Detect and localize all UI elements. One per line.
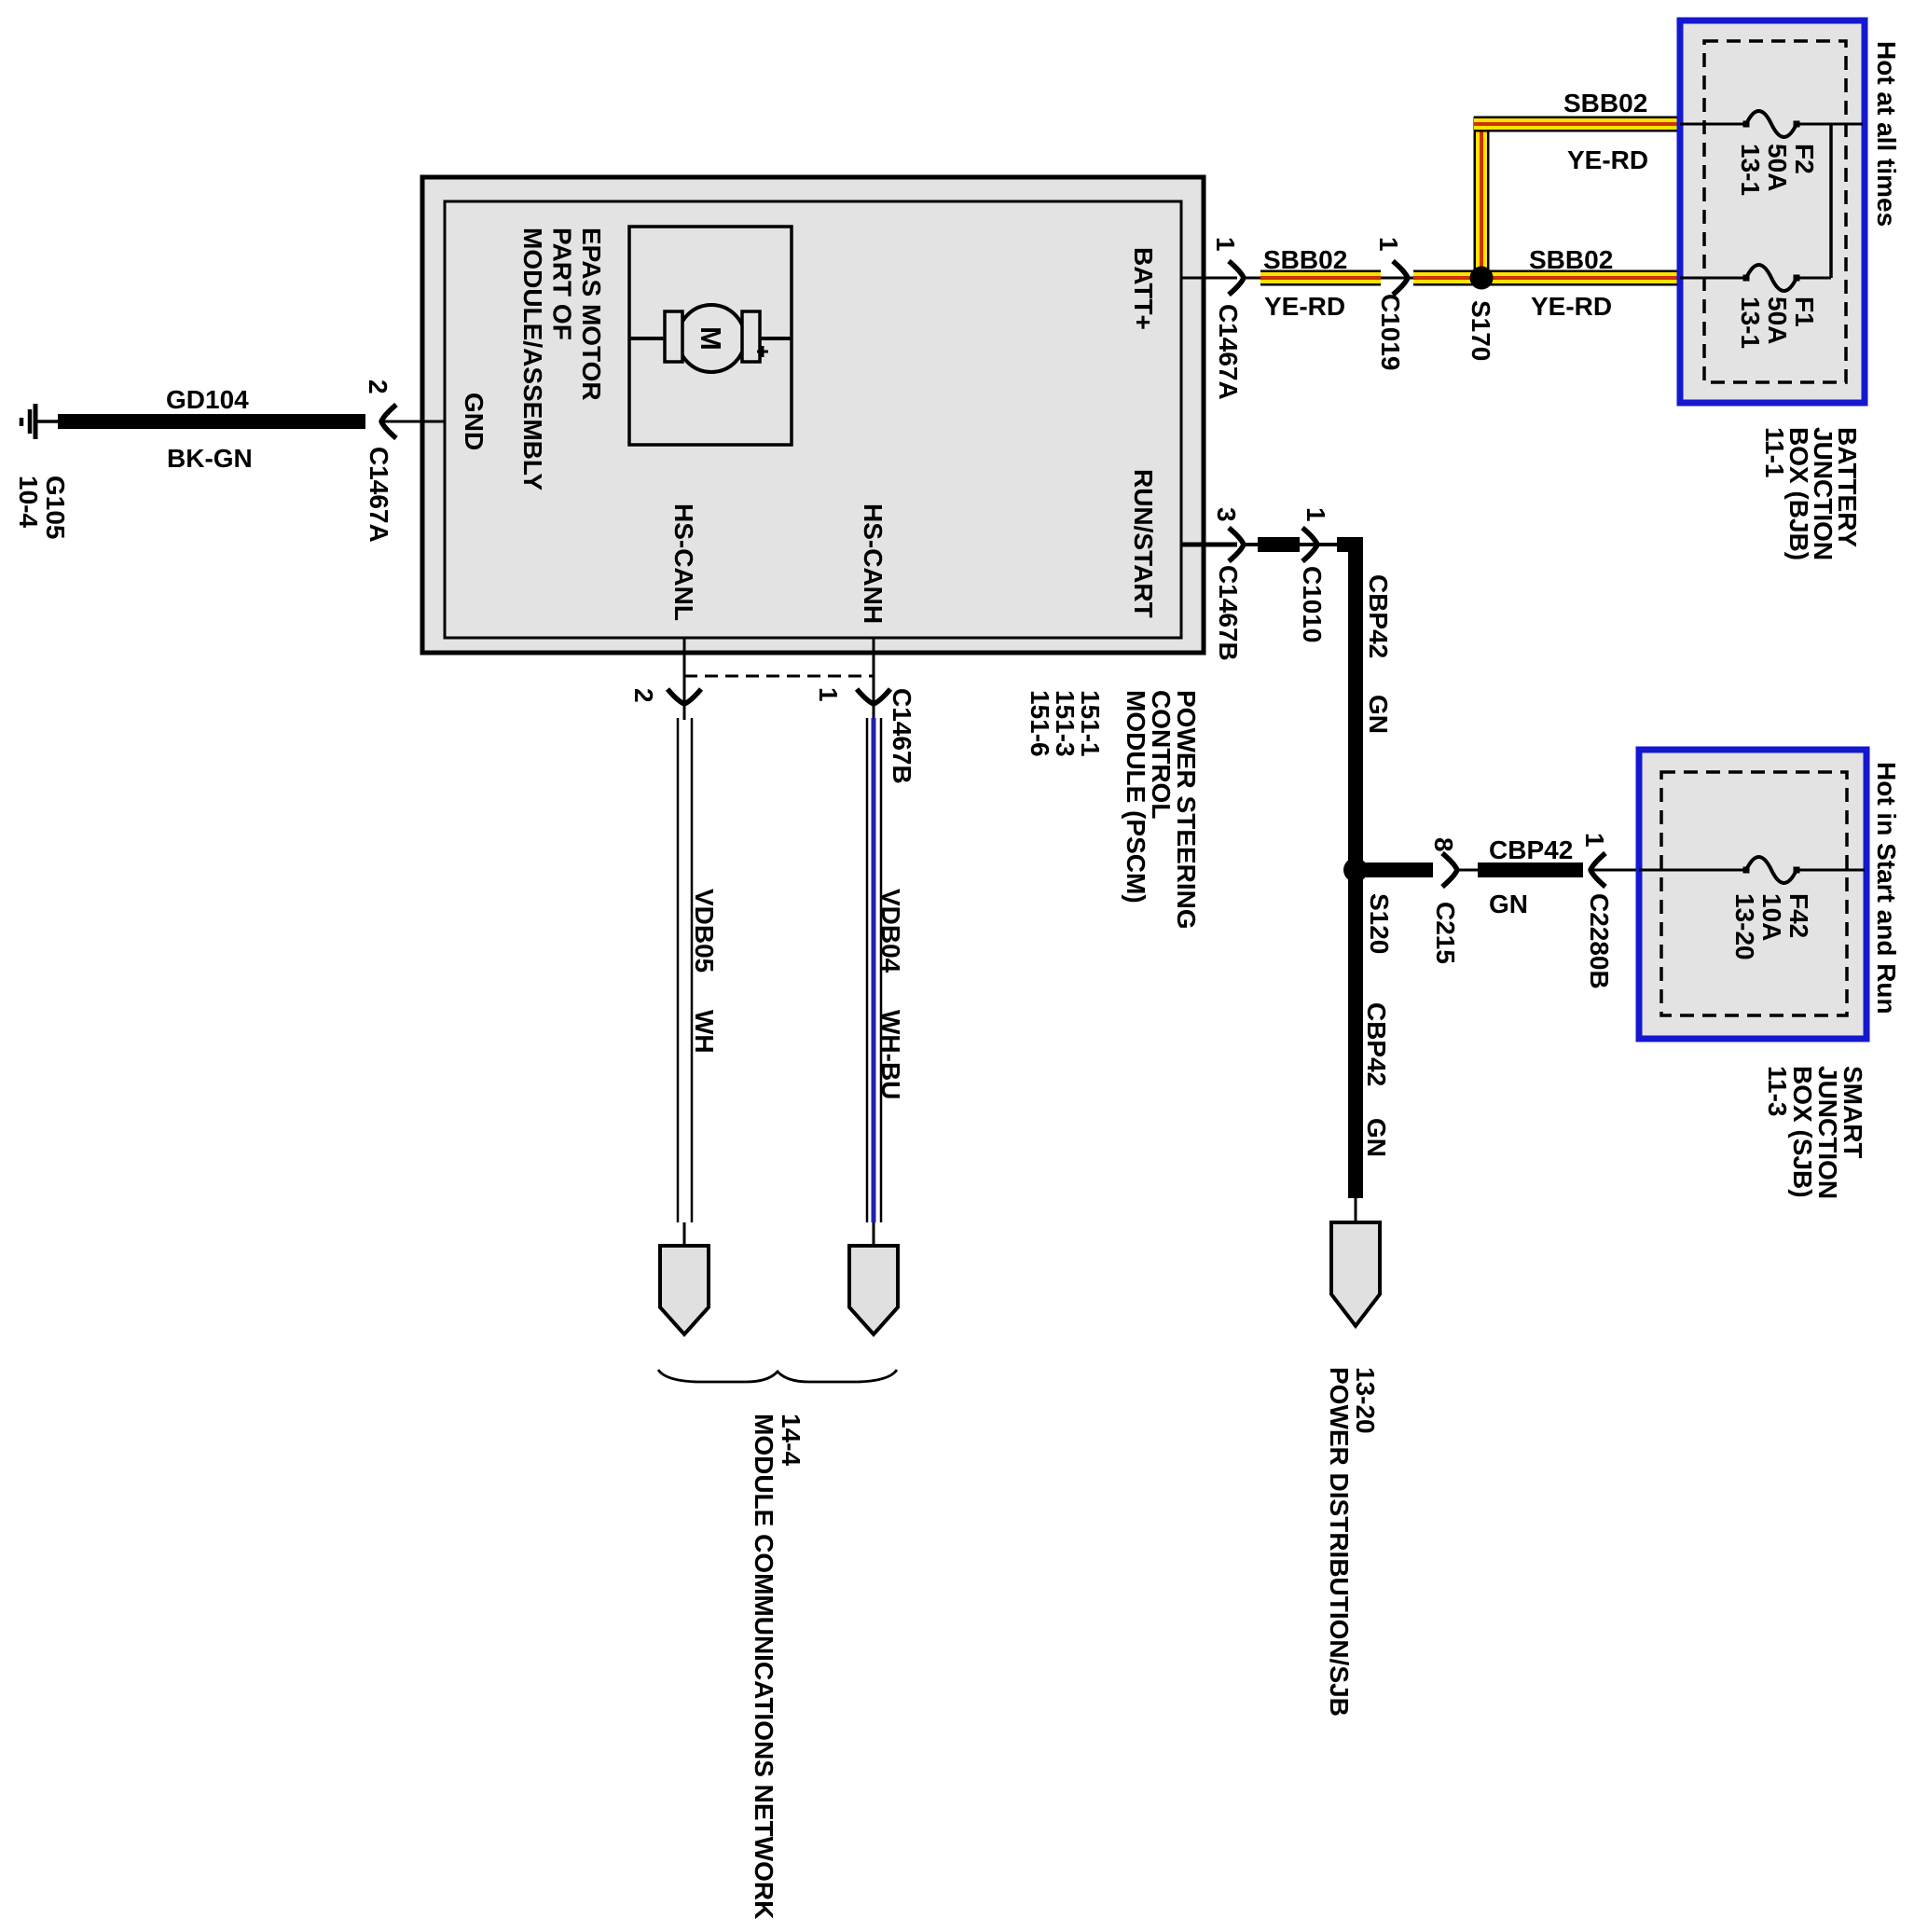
svg-text:2: 2 bbox=[364, 379, 392, 394]
connector C1467A pin 2 arrow bbox=[381, 405, 396, 438]
svg-text:1: 1 bbox=[1211, 237, 1240, 252]
off-page connector MODULE COMMUNICATIONS NETWORK pentagon left bbox=[660, 1246, 709, 1334]
svg-text:13-20: 13-20 bbox=[1351, 1367, 1380, 1434]
svg-text:F1: F1 bbox=[1790, 297, 1819, 327]
svg-text:Hot at all times: Hot at all times bbox=[1872, 41, 1901, 227]
svg-text:POWER DISTRIBUTION/SJB: POWER DISTRIBUTION/SJB bbox=[1325, 1367, 1354, 1717]
svg-text:VDB05: VDB05 bbox=[690, 889, 719, 973]
svg-text:10-4: 10-4 bbox=[14, 476, 43, 528]
svg-text:BK-GN: BK-GN bbox=[167, 444, 253, 473]
wire CBP42 GN branch thick bbox=[1478, 862, 1583, 877]
svg-text:151-6: 151-6 bbox=[1026, 690, 1054, 757]
connector C1467B pin 2 arrow bbox=[668, 689, 701, 704]
svg-text:50A: 50A bbox=[1763, 144, 1792, 191]
wire into SJB bbox=[1591, 869, 1639, 872]
svg-text:14-4: 14-4 bbox=[777, 1414, 806, 1466]
svg-text:CBP42: CBP42 bbox=[1364, 574, 1393, 658]
wire VDB05 WH twisted pair bbox=[677, 718, 680, 1222]
wire HS-CANH pin stub bbox=[873, 638, 875, 703]
wire SBB02 vertical riser bbox=[1474, 117, 1490, 278]
svg-text:YE-RD: YE-RD bbox=[1264, 292, 1345, 321]
wire after arrow bbox=[1244, 543, 1260, 546]
wire stub to pentagon bbox=[683, 1222, 686, 1247]
wire stub to off-page connector bbox=[1355, 1198, 1357, 1223]
svg-text:13-1: 13-1 bbox=[1736, 297, 1765, 349]
connector C1467B pin 3 arrow bbox=[1229, 528, 1244, 561]
motor M1 circle bbox=[678, 305, 745, 372]
svg-text:SBB02: SBB02 bbox=[1529, 245, 1613, 274]
svg-text:13-1: 13-1 bbox=[1736, 144, 1765, 196]
wire CBP42 thick segment bbox=[1258, 537, 1300, 552]
module box U1 PSCM inner boundary bbox=[445, 201, 1181, 638]
wire stub bbox=[873, 704, 875, 720]
svg-text:Hot in Start and Run: Hot in Start and Run bbox=[1872, 762, 1901, 1014]
wire after arrow bbox=[1457, 869, 1480, 872]
splice S170 junction dot bbox=[1470, 267, 1494, 290]
svg-text:GN: GN bbox=[1489, 890, 1528, 918]
svg-text:MODULE (PSCM): MODULE (PSCM) bbox=[1122, 690, 1150, 904]
svg-text:C1467A: C1467A bbox=[365, 447, 393, 543]
svg-text:M: M bbox=[695, 326, 727, 351]
svg-text:C215: C215 bbox=[1431, 902, 1460, 964]
wire dashed connector boundary C1467B bbox=[684, 675, 874, 678]
svg-text:BATT+: BATT+ bbox=[1129, 247, 1158, 330]
svg-text:YE-RD: YE-RD bbox=[1567, 145, 1648, 174]
svg-text:G105: G105 bbox=[41, 476, 70, 540]
off-page connector MODULE COMMUNICATIONS NETWORK pentagon right bbox=[849, 1246, 898, 1334]
wire F2 to bus bbox=[1797, 123, 1863, 126]
motor polarity + mark bbox=[757, 351, 768, 353]
wire SBB02 YE-RD segment B bbox=[1413, 270, 1680, 286]
wire thin through C1010 bbox=[1298, 543, 1343, 546]
svg-text:3: 3 bbox=[1212, 507, 1241, 522]
svg-text:HS-CANH: HS-CANH bbox=[859, 504, 888, 624]
svg-text:GD104: GD104 bbox=[166, 385, 249, 414]
svg-text:2: 2 bbox=[629, 688, 658, 703]
svg-text:GN: GN bbox=[1362, 1118, 1391, 1157]
wire HS-CANL pin stub bbox=[683, 638, 686, 703]
svg-text:SBB02: SBB02 bbox=[1563, 89, 1647, 117]
motor brush terminal right bbox=[742, 311, 760, 362]
ground G105 symbol bbox=[34, 404, 38, 439]
box SMART JUNCTION BOX (SJB) bbox=[1639, 750, 1866, 1039]
wire BATT+ pin stub bbox=[1181, 277, 1237, 280]
connector C2280B pin 1 arrow bbox=[1591, 853, 1605, 887]
svg-text:VDB04: VDB04 bbox=[876, 889, 905, 973]
wire branch to SJB thick bbox=[1362, 862, 1433, 877]
connector C215 pin 8 arrow bbox=[1442, 853, 1457, 887]
svg-text:MODULE COMMUNICATIONS NETWORK: MODULE COMMUNICATIONS NETWORK bbox=[750, 1414, 778, 1919]
wire BJB internal bus bar bbox=[1829, 124, 1833, 278]
wire VDB04 WH-BU twisted pair with blue stripe bbox=[872, 718, 876, 1222]
svg-text:HS-CANL: HS-CANL bbox=[669, 504, 698, 621]
svg-text:RUN/START: RUN/START bbox=[1129, 469, 1158, 618]
wire RUN/START pin stub bbox=[1181, 543, 1237, 547]
svg-text:C1019: C1019 bbox=[1376, 294, 1405, 371]
svg-text:50A: 50A bbox=[1763, 297, 1792, 344]
svg-text:GND: GND bbox=[460, 393, 489, 450]
connector C1467B pin 1 arrow bbox=[857, 689, 890, 704]
motor brush terminal left bbox=[665, 311, 682, 362]
wire thin through C1019 bbox=[1381, 277, 1414, 280]
svg-text:13-20: 13-20 bbox=[1730, 893, 1759, 960]
box SJB dashed internal boundary bbox=[1661, 772, 1847, 1015]
svg-text:WH-BU: WH-BU bbox=[876, 1010, 905, 1099]
svg-text:MODULE/ASSEMBLY: MODULE/ASSEMBLY bbox=[518, 228, 547, 490]
wire CBP42 GN vertical bbox=[1348, 537, 1363, 1198]
svg-text:SBB02: SBB02 bbox=[1263, 245, 1347, 274]
motor sub-box EPAS MOTOR bbox=[629, 227, 792, 445]
wire GD104 BK-GN thick bbox=[58, 414, 365, 429]
svg-text:F42: F42 bbox=[1784, 893, 1813, 938]
splice S120 junction dot bbox=[1343, 858, 1368, 882]
svg-text:S120: S120 bbox=[1365, 893, 1394, 954]
svg-text:1: 1 bbox=[1580, 833, 1609, 848]
box BATTERY JUNCTION BOX (BJB) bbox=[1680, 21, 1865, 403]
svg-text:PART OF: PART OF bbox=[547, 228, 576, 340]
connector C1010 pin 1 arrow bbox=[1302, 528, 1317, 561]
wire motor shaft bbox=[629, 337, 792, 340]
module box U1 POWER STEERING CONTROL MODULE (PSCM) outer bbox=[422, 177, 1204, 653]
svg-text:C1010: C1010 bbox=[1298, 566, 1327, 643]
svg-text:C2280B: C2280B bbox=[1585, 893, 1614, 989]
wire stub bbox=[683, 704, 686, 720]
off-page connector POWER DISTRIBUTION/SJB pentagon bbox=[1331, 1222, 1380, 1326]
wire F1 feed left bbox=[1680, 277, 1746, 280]
wire SBB02 YE-RD segment A bbox=[1260, 270, 1381, 286]
svg-text:1: 1 bbox=[1374, 237, 1403, 252]
wire stub to pentagon bbox=[873, 1222, 875, 1247]
wire after arrow bbox=[1244, 277, 1261, 280]
wire F2 feed left bbox=[1680, 123, 1746, 126]
fuse F1 50A bbox=[1746, 265, 1797, 291]
svg-text:11-1: 11-1 bbox=[1760, 427, 1789, 478]
fuse F42 10A bbox=[1746, 857, 1797, 883]
svg-text:WH: WH bbox=[690, 1010, 719, 1054]
wire ground stub bbox=[37, 420, 59, 423]
svg-text:CBP42: CBP42 bbox=[1489, 835, 1573, 864]
wire CBP42 corner horizontal bbox=[1337, 537, 1363, 552]
fuse F2 50A bbox=[1746, 111, 1797, 137]
svg-text:GN: GN bbox=[1364, 695, 1393, 734]
connector C1467A pin 1 arrow bbox=[1229, 261, 1244, 295]
wire F42 feed left bbox=[1639, 869, 1746, 872]
svg-text:1: 1 bbox=[814, 687, 843, 702]
svg-text:S170: S170 bbox=[1467, 300, 1495, 361]
svg-text:F2: F2 bbox=[1790, 144, 1819, 174]
svg-text:8: 8 bbox=[1429, 837, 1458, 852]
wire F1 to bus bbox=[1797, 277, 1831, 280]
svg-text:10A: 10A bbox=[1757, 893, 1786, 941]
wire SBB02 YE-RD top segment bbox=[1474, 117, 1680, 132]
box BJB dashed internal boundary bbox=[1704, 41, 1846, 382]
connector C1019 pin 1 arrow bbox=[1393, 261, 1408, 295]
svg-text:1: 1 bbox=[1301, 507, 1330, 522]
svg-text:CBP42: CBP42 bbox=[1362, 1002, 1391, 1086]
wire GND into module bbox=[381, 421, 446, 423]
svg-text:EPAS MOTOR: EPAS MOTOR bbox=[577, 228, 606, 401]
svg-text:C1467A: C1467A bbox=[1214, 304, 1243, 400]
wire F42 to right bbox=[1797, 869, 1865, 872]
svg-text:C1467B: C1467B bbox=[1214, 565, 1243, 661]
brace grouping CAN pair bbox=[658, 1370, 897, 1382]
svg-text:YE-RD: YE-RD bbox=[1531, 292, 1612, 321]
svg-text:11-3: 11-3 bbox=[1763, 1066, 1792, 1117]
svg-text:C1467B: C1467B bbox=[888, 688, 916, 784]
